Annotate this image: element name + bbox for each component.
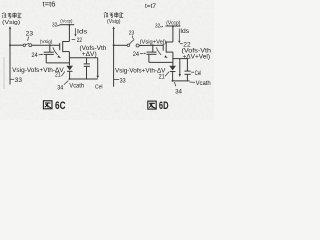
drain wire right [172, 26, 174, 42]
wire: switch to gate [32, 44, 60, 46]
svg-text:6C: 6C [55, 100, 66, 112]
label 21 leader (right ckt) [165, 72, 169, 77]
node: gate wire / cap branch [49, 44, 51, 46]
OLED 34 cathode bar (right ckt) [170, 71, 176, 73]
OLED 34 anode triangle (right ckt) [169, 66, 176, 71]
svg-text:32: 32 [52, 22, 57, 28]
svg-text:Cel: Cel [195, 71, 201, 77]
transistor 22 drain contact (right ckt) [166, 41, 173, 43]
Ids current arrow right [178, 29, 180, 41]
transistor 22 drain contact [63, 41, 70, 43]
svg-text:t=t7: t=t7 [145, 3, 156, 10]
bootstrap curved arrow (right ckt) [156, 47, 161, 55]
svg-text:22: 22 [77, 37, 83, 44]
label 24 leader arrow (right ckt) [140, 53, 144, 55]
svg-text:Cel: Cel [95, 85, 103, 91]
wire: rail to switch [10, 44, 23, 46]
transistor 22 source contact (right ckt) [166, 51, 173, 53]
capacitor 24 plates [44, 51, 54, 53]
capacitor Cel bottom lead [86, 66, 88, 79]
svg-text:23: 23 [129, 31, 135, 37]
signal line 33 top arrowhead right [112, 26, 114, 29]
svg-text:23: 23 [26, 31, 34, 38]
svg-text:(Vsig+Vel): (Vsig+Vel) [140, 39, 167, 45]
signal line 33 (left vertical rail) [9, 28, 11, 85]
bottom cathode wire (right ckt) [172, 80, 190, 82]
transistor 22 source contact [63, 51, 70, 53]
Ids current arrow [74, 28, 76, 34]
svg-text:32: 32 [155, 24, 160, 30]
wire cap bottom to source node (right ckt) [149, 61, 173, 63]
node gate/cap branch (right ckt) [152, 44, 154, 46]
node: T-bar / drain junction right [172, 25, 174, 27]
capacitor 24 top lead (right ckt) [152, 45, 154, 52]
switch 23 contact circle left (right ckt) [127, 44, 130, 47]
svg-text:+ΔV): +ΔV) [82, 51, 97, 58]
wire: cap bottom to source node [46, 62, 69, 64]
label 21 leader [61, 72, 64, 77]
label 23 leader [28, 37, 29, 41]
capacitor Cel top lead [86, 58, 88, 64]
wire OLED to bottom rail [69, 71, 71, 79]
svg-text:24: 24 [133, 51, 140, 58]
label 22 leader right [180, 43, 183, 45]
wire rail to switch right [114, 44, 128, 46]
svg-text:Vcath: Vcath [196, 80, 211, 87]
svg-text:Ids: Ids [180, 28, 190, 35]
transistor 22 gate bar [59, 43, 61, 50]
bootstrap curved arrow (gate to source) [53, 47, 58, 55]
svg-text:(Vsig): (Vsig) [2, 20, 20, 26]
signal line 33 top arrowhead [9, 26, 11, 29]
power supply line 32 T-bar (Vccp) right [166, 25, 181, 27]
current path arrow (right ckt) [179, 59, 181, 74]
capacitor Cel bottom lead (right ckt) [186, 74, 188, 81]
capacitor Cel top lead (right ckt) [186, 59, 188, 71]
scan artifact: faint page-edge line [3, 57, 5, 89]
label 22 leader [72, 38, 76, 40]
node: rail / wire junction right [113, 44, 115, 46]
sampling switch 23 contact circle right [29, 44, 32, 47]
source wire down [68, 52, 70, 66]
caption 图 6C [43, 101, 52, 109]
svg-text:t=t6: t=t6 [43, 1, 56, 8]
label 23 leader (right ckt) [133, 35, 134, 39]
capacitor 24 top lead [49, 45, 51, 52]
label 33 leader [10, 78, 14, 80]
svg-text:6D: 6D [159, 100, 169, 112]
capacitor Cel plates (right ckt) [185, 70, 191, 72]
wire switch to gate (right ckt) [139, 44, 163, 46]
svg-text:(Vsig): (Vsig) [40, 39, 53, 45]
svg-text:(Vsig): (Vsig) [107, 19, 121, 25]
wire OLED to bottom rail (right ckt) [172, 72, 174, 81]
label 33 leader right [114, 79, 120, 81]
caption 图 6D [148, 101, 156, 109]
source node wire to Cel (right ckt) [173, 58, 188, 60]
drain wire T-bar to transistor [68, 25, 70, 42]
svg-text:Ids: Ids [77, 28, 88, 35]
label 24 leader arrow [39, 54, 43, 56]
svg-text:34: 34 [57, 85, 63, 92]
current path arrow to Vcath [97, 58, 99, 76]
label 信号电位 right [104, 12, 123, 18]
source node wire to Cel branch [69, 57, 97, 59]
OLED 34 cathode bar [67, 70, 73, 72]
label Vcath leader (right ckt) [190, 81, 196, 83]
signal line 33 right rail [113, 28, 115, 87]
svg-text:(Vccp): (Vccp) [60, 18, 72, 24]
bottom cathode wire [69, 78, 98, 80]
node: rail / wire junction [9, 44, 11, 46]
svg-text:21: 21 [55, 72, 61, 79]
node: T-bar / drain junction [68, 24, 70, 26]
svg-text:34: 34 [175, 89, 182, 96]
transistor 22 gate bar (right ckt) [162, 44, 164, 51]
capacitor 24 plates (right ckt) [147, 51, 157, 53]
transistor 22 channel bar [62, 41, 64, 52]
label 34 leader (right ckt) [174, 82, 175, 86]
svg-text:21: 21 [159, 74, 165, 81]
svg-text:+ΔV+Vel): +ΔV+Vel) [183, 54, 211, 61]
label 34 leader [64, 81, 68, 85]
svg-text:33: 33 [15, 77, 23, 84]
source wire down (right ckt) [172, 52, 174, 66]
svg-text:24: 24 [32, 52, 39, 59]
capacitor 24 bottom lead (right ckt) [148, 54, 150, 62]
node bottom rail (right ckt) [172, 80, 174, 82]
svg-text:33: 33 [120, 77, 126, 84]
capacitor 24 bottom lead [45, 54, 47, 63]
capacitor Cel plates [84, 63, 90, 65]
label Cel leader (right ckt) [191, 71, 194, 73]
switch 23 contact circle right (right ckt) [136, 44, 139, 47]
label 32 leader [57, 24, 60, 27]
power supply line 32 T-bar (Vccp) [60, 24, 75, 26]
label 信号电位 (signal potential) [2, 13, 22, 19]
transistor 22 channel bar (right ckt) [165, 41, 167, 52]
sampling switch 23 contact circle left [23, 44, 26, 47]
switch 23 lever (closed) [26, 43, 30, 44]
svg-text:Vcath: Vcath [69, 83, 84, 90]
switch 23 lever open (right ckt) [129, 39, 134, 44]
node OLED cathode / bottom rail [69, 78, 71, 80]
OLED 34 anode triangle [66, 66, 73, 71]
label 32 leader right [160, 25, 163, 28]
